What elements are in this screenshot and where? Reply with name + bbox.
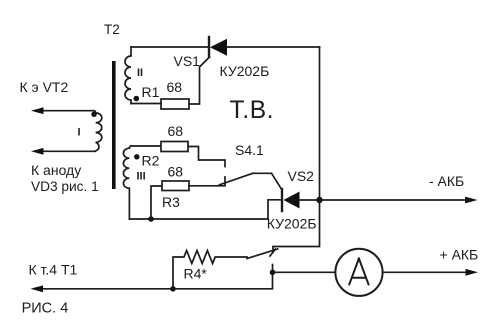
winding II phase dot <box>134 96 140 102</box>
transformer T2 core <box>112 61 116 189</box>
wire arrow to +AKB <box>383 271 466 273</box>
svg-text:РИС. 4: РИС. 4 <box>22 301 69 317</box>
svg-text:VS2: VS2 <box>288 168 315 184</box>
svg-text:68: 68 <box>167 79 183 95</box>
wire: VS1 anode to right vertical <box>227 46 320 48</box>
wire: winding II bottom to R1 <box>131 103 161 105</box>
svg-text:К аноду: К аноду <box>31 162 81 178</box>
wire: R3 to switch lower contact <box>189 177 225 186</box>
wire: -AKB node down to switch pole 2 <box>273 200 320 252</box>
svg-text:- АКБ: - АКБ <box>429 173 464 189</box>
svg-text:Т.В.: Т.В. <box>230 97 275 124</box>
svg-text:68: 68 <box>168 164 184 180</box>
svg-text:К т.4 Т1: К т.4 Т1 <box>29 261 78 277</box>
winding III phase dot <box>134 154 139 159</box>
svg-text:VS1: VS1 <box>174 53 201 69</box>
svg-text:VD3 рис. 1: VD3 рис. 1 <box>31 179 99 194</box>
transformer T2 winding II <box>125 47 131 104</box>
wire: winding III bottom rail <box>130 218 269 220</box>
svg-text:R1: R1 <box>142 84 160 100</box>
wire: node to ammeter <box>273 271 336 273</box>
svg-text:Т2: Т2 <box>104 22 120 37</box>
svg-text:КУ202Б: КУ202Б <box>220 63 270 79</box>
wire: R2 to switch upper contact <box>188 147 225 167</box>
resistor R4 <box>173 251 247 289</box>
winding I phase dot <box>91 112 96 117</box>
node: R4 junction <box>170 286 176 292</box>
thyristor VS2 <box>272 173 300 211</box>
svg-text:+ АКБ: + АКБ <box>440 247 479 263</box>
switch S4.1 <box>220 173 272 185</box>
wire arrow to VD3 anode <box>42 150 95 152</box>
svg-text:II: II <box>137 67 143 79</box>
svg-text:R4*: R4* <box>184 266 208 282</box>
switch S4.2 blade <box>247 249 278 259</box>
wire: winding III top to R2 <box>131 145 161 147</box>
wire arrow to VT2 emitter <box>42 110 94 112</box>
svg-text:68: 68 <box>168 123 184 139</box>
switch S4.2 lower contact <box>272 265 274 273</box>
svg-text:S4.1: S4.1 <box>235 142 264 158</box>
wire: bottom rail to ammeter node <box>173 272 273 289</box>
node: ammeter junction <box>270 270 276 276</box>
thyristor VS1 <box>189 37 227 104</box>
wire: junction up to R3 <box>151 186 162 219</box>
wire: right vertical to -AKB node <box>319 47 321 200</box>
resistor R1 <box>161 99 189 109</box>
node: -AKB junction <box>316 197 322 203</box>
svg-text:III: III <box>137 171 146 183</box>
wire: winding II top to VS1 cathode <box>131 46 209 48</box>
svg-text:R3: R3 <box>162 194 180 210</box>
switch S4.2 contact tick <box>270 249 276 256</box>
resistor R2 <box>161 142 188 152</box>
wire arrow to -AKB <box>320 199 467 201</box>
node: bottom rail junction <box>148 216 154 222</box>
wire: VS2 cathode to bottom rail <box>268 200 282 219</box>
wire arrow to t.4 T1 <box>42 288 173 290</box>
svg-text:I: I <box>78 127 81 139</box>
resistor R3 <box>162 181 189 191</box>
svg-text:КУ202Б: КУ202Б <box>267 216 317 232</box>
transformer T2 winding III <box>123 146 131 219</box>
transformer T2 winding I <box>94 111 102 152</box>
wire: VS2 anode to -AKB node <box>300 199 320 201</box>
svg-text:К э VT2: К э VT2 <box>20 79 69 95</box>
ammeter PA <box>335 249 382 296</box>
svg-text:R2: R2 <box>142 153 160 169</box>
